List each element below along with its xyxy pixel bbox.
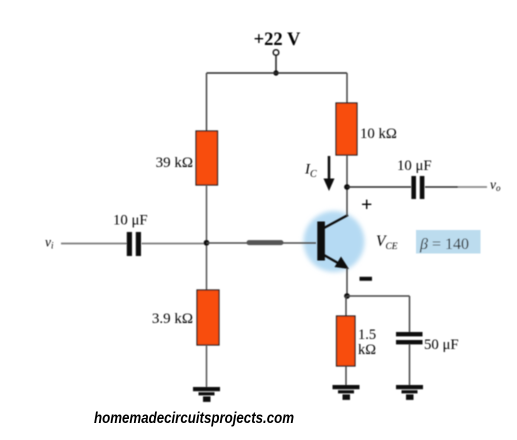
wire C2 to vo xyxy=(425,186,458,188)
svg-text:50 μF: 50 μF xyxy=(424,337,459,353)
wire supply to rail xyxy=(275,56,277,74)
transistor Q1 emitter arrowhead xyxy=(335,257,350,270)
transistor Q1 emitter lead xyxy=(323,255,345,268)
resistor R2b 3.9 kOhm xyxy=(197,290,219,345)
junction collector node xyxy=(344,184,350,190)
wire emitter node to R3 xyxy=(345,296,347,317)
transistor Q1 base bar xyxy=(317,222,325,261)
wire C3 to ground xyxy=(409,344,411,386)
wire collector to C2 xyxy=(347,186,411,188)
capacitor C3 plate top xyxy=(396,332,423,336)
capacitor C3 plate bottom xyxy=(396,340,423,344)
svg-text:10 μF: 10 μF xyxy=(397,158,432,174)
wire emitter node to bypass branch xyxy=(347,295,410,297)
svg-text:10 kΩ: 10 kΩ xyxy=(360,126,397,142)
wire C1 to base node xyxy=(142,243,207,245)
wire R3 to ground xyxy=(345,366,347,386)
svg-text:10 μF: 10 μF xyxy=(113,213,148,229)
wire bypass branch down xyxy=(409,296,411,333)
svg-text:β = 140: β = 140 xyxy=(419,236,469,253)
wire emitter to emitter node xyxy=(346,268,348,296)
junction base node xyxy=(204,240,210,246)
ground left xyxy=(193,387,220,402)
svg-text:homemadecircuitsprojects.com: homemadecircuitsprojects.com xyxy=(94,410,294,427)
transistor Q1 highlight circle xyxy=(304,211,365,272)
svg-text:3.9 kΩ: 3.9 kΩ xyxy=(152,311,193,327)
supply terminal xyxy=(273,50,279,56)
svg-text:+22 V: +22 V xyxy=(254,30,301,50)
ground emitter xyxy=(333,385,360,400)
beta highlight box xyxy=(416,230,481,254)
wire rail to R2 xyxy=(346,73,348,104)
capacitor C2 plate right xyxy=(420,176,425,199)
wire segment near vo xyxy=(458,186,487,188)
svg-text:+: + xyxy=(361,194,372,216)
wire thick segment on base wire xyxy=(249,240,281,245)
svg-text:39 kΩ: 39 kΩ xyxy=(156,155,193,171)
wire base node to transistor base xyxy=(207,242,317,244)
svg-text:1.5: 1.5 xyxy=(358,327,376,343)
capacitor C2 plate left xyxy=(411,176,416,199)
current arrow IC xyxy=(328,156,331,181)
resistor R1 39 kOhm xyxy=(196,131,218,185)
wire R2b to ground xyxy=(206,345,208,388)
resistor R3 1.5 kOhm xyxy=(337,316,356,366)
minus sign emitter polarity xyxy=(360,277,373,281)
wire left branch top xyxy=(206,73,208,132)
junction supply rail xyxy=(273,70,278,75)
transistor Q1 collector lead xyxy=(323,215,348,229)
wire top rail xyxy=(207,72,348,74)
resistor R2 10 kOhm xyxy=(336,103,357,155)
junction emitter node xyxy=(344,293,350,299)
capacitor C1 plate left xyxy=(127,232,132,256)
wire R2 to collector xyxy=(346,155,348,216)
ground bypass xyxy=(396,385,423,400)
wire R1 to base node xyxy=(206,185,208,291)
capacitor C1 plate right xyxy=(136,232,141,256)
svg-text:kΩ: kΩ xyxy=(358,342,376,358)
wire vi to C1 xyxy=(61,243,127,245)
